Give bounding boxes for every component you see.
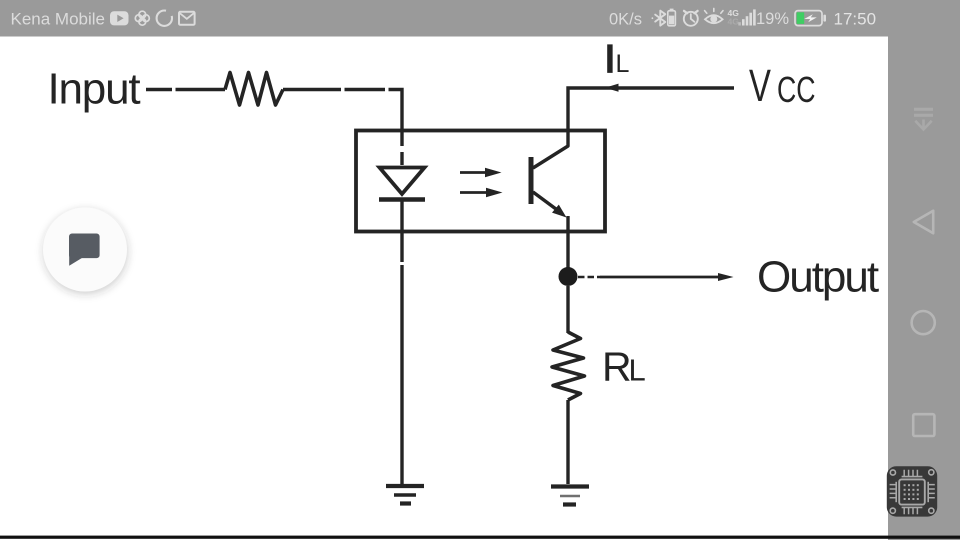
output node junction — [559, 267, 578, 286]
optocoupler package box U1 — [356, 131, 605, 232]
status icon charging battery — [795, 11, 826, 26]
LED D1 anode wire — [400, 131, 403, 165]
nav icon home circle — [912, 311, 935, 334]
svg-text:V: V — [749, 61, 772, 111]
wire emitter to output node — [566, 231, 569, 268]
current arrow IL on Vcc rail — [605, 84, 619, 92]
wire resistor to LED anode corner — [283, 90, 402, 132]
light arrow lower — [460, 188, 503, 197]
LED D1 — [379, 168, 425, 200]
status icon smart-stay eye — [705, 8, 723, 23]
phototransistor Q1 base bar — [529, 157, 534, 204]
status icon small battery — [668, 9, 676, 26]
wire collector to Vcc rail — [568, 88, 734, 131]
svg-text:0K/s: 0K/s — [609, 11, 642, 29]
svg-text:Input: Input — [48, 65, 141, 114]
svg-text:CC: CC — [777, 69, 816, 110]
LED D1 cathode wire — [400, 200, 403, 232]
status bar background — [0, 0, 960, 37]
svg-text:I: I — [605, 38, 616, 81]
status icon gmail — [179, 12, 195, 25]
svg-text:17:50: 17:50 — [834, 10, 877, 29]
status icon data ring — [157, 11, 172, 26]
phototransistor Q1 collector — [533, 131, 568, 168]
light arrow upper — [460, 168, 502, 177]
status icon bluetooth — [652, 11, 666, 26]
bottom frame line — [0, 536, 960, 539]
resistor R1 — [225, 73, 283, 106]
label IL — [605, 38, 630, 81]
svg-text:L: L — [616, 50, 630, 78]
wire node to RL — [566, 286, 569, 333]
chat fab shadow — [43, 210, 128, 295]
status icon pinwheel — [135, 11, 149, 25]
svg-text:19%: 19% — [756, 10, 789, 28]
ground right — [551, 487, 589, 505]
nav icon hide-bar — [914, 109, 933, 129]
resistor RL — [552, 332, 585, 400]
phototransistor Q1 emitter with arrow — [533, 192, 568, 231]
wire RL to ground — [566, 400, 569, 484]
svg-text:Kena Mobile: Kena Mobile — [11, 10, 106, 29]
chip overlay button — [887, 466, 937, 516]
svg-text:4G: 4G — [728, 17, 740, 27]
status icon alarm clock — [684, 11, 698, 26]
wire LED cathode to ground — [400, 231, 403, 484]
svg-text:R: R — [602, 344, 632, 390]
status icon youtube — [110, 11, 129, 25]
wire Input to resistor — [146, 88, 225, 91]
right navigation sidebar background — [888, 36, 960, 540]
chat fab bubble icon — [69, 234, 100, 266]
chat fab — [43, 208, 127, 292]
nav icon back triangle — [914, 211, 933, 234]
output wire with arrow — [578, 273, 734, 281]
label RL — [602, 344, 646, 390]
label Vcc — [749, 61, 816, 111]
svg-text:L: L — [629, 353, 646, 388]
ground left — [386, 486, 424, 504]
status icon 4G signal — [728, 8, 756, 27]
nav icon recents square — [913, 414, 934, 436]
svg-text:Output: Output — [757, 253, 879, 302]
